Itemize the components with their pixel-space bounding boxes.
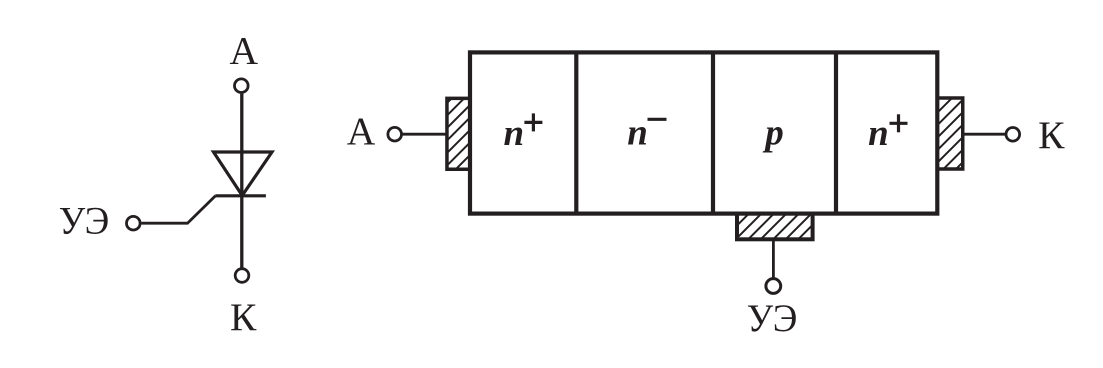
svg-text:К: К [230, 295, 257, 339]
svg-text:А: А [230, 28, 259, 72]
svg-text:УЭ: УЭ [59, 199, 109, 243]
svg-text:n: n [868, 113, 889, 154]
svg-text:А: А [347, 109, 376, 153]
svg-text:p: p [762, 113, 784, 154]
svg-text:n: n [627, 113, 648, 154]
svg-text:УЭ: УЭ [747, 296, 798, 340]
svg-text:n: n [503, 113, 524, 154]
svg-text:К: К [1038, 113, 1065, 157]
